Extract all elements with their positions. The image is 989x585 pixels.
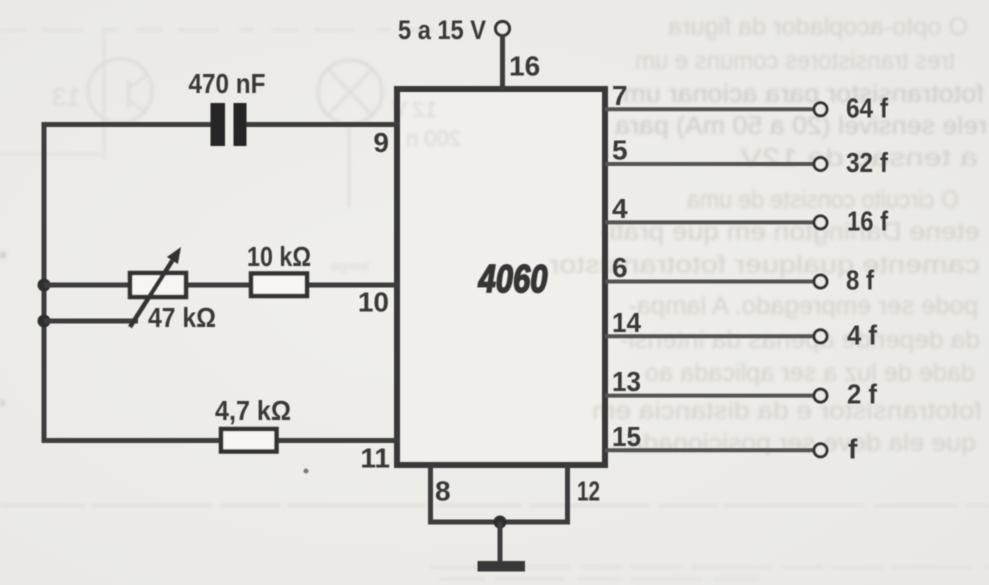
svg-text:6: 6 bbox=[612, 252, 628, 283]
svg-text:5: 5 bbox=[612, 135, 628, 166]
svg-text:tempo: tempo bbox=[330, 258, 369, 274]
svg-text:f: f bbox=[848, 433, 858, 464]
svg-text:pode ser empregado. A lampa-: pode ser empregado. A lampa- bbox=[628, 292, 978, 320]
svg-text:8: 8 bbox=[435, 476, 451, 507]
svg-text:13: 13 bbox=[612, 366, 641, 397]
svg-text:8 f: 8 f bbox=[846, 265, 875, 296]
svg-text:10: 10 bbox=[358, 287, 389, 318]
svg-text:5 a 15 V: 5 a 15 V bbox=[398, 15, 486, 45]
svg-text:13: 13 bbox=[52, 82, 81, 112]
svg-text:12: 12 bbox=[577, 476, 600, 507]
svg-text:fototransistor para acionar um: fototransistor para acionar um bbox=[623, 80, 984, 108]
svg-text:32 f: 32 f bbox=[846, 147, 889, 178]
svg-text:2 f: 2 f bbox=[847, 379, 878, 410]
svg-text:7: 7 bbox=[612, 80, 628, 111]
svg-text:16 f: 16 f bbox=[847, 205, 889, 236]
svg-text:dade de luz a ser aplicada ao: dade de luz a ser aplicada ao bbox=[645, 359, 975, 387]
svg-text:14: 14 bbox=[612, 307, 641, 338]
svg-text:que ela deve ser posicionada.: que ela deve ser posicionada. bbox=[621, 429, 976, 457]
svg-text:470 nF: 470 nF bbox=[189, 68, 266, 99]
svg-text:4 f: 4 f bbox=[847, 319, 878, 350]
svg-text:O opto-acoplador da figura: O opto-acoplador da figura bbox=[668, 13, 968, 41]
svg-text:9: 9 bbox=[373, 127, 389, 158]
svg-text:47 kΩ: 47 kΩ bbox=[148, 302, 216, 333]
svg-text:da depende apenas da intensi-: da depende apenas da intensi- bbox=[620, 326, 980, 354]
svg-text:fototransistor e da distancia: fototransistor e da distancia em bbox=[592, 397, 982, 425]
svg-text:O circuito consiste de uma: O circuito consiste de uma bbox=[687, 186, 959, 214]
svg-text:15: 15 bbox=[612, 421, 641, 452]
svg-text:16: 16 bbox=[509, 51, 540, 82]
svg-text:rele sensivel (20 a 50 mA) par: rele sensivel (20 a 50 mA) para bbox=[615, 112, 987, 140]
svg-text:200 n: 200 n bbox=[406, 126, 461, 151]
svg-text:64 f: 64 f bbox=[846, 92, 889, 123]
svg-text:4: 4 bbox=[612, 193, 628, 224]
svg-text:tres transistores comuns e um: tres transistores comuns e um bbox=[635, 47, 955, 75]
svg-text:4,7 kΩ: 4,7 kΩ bbox=[215, 395, 291, 426]
svg-text:11: 11 bbox=[360, 443, 390, 474]
svg-text:4060: 4060 bbox=[478, 258, 548, 301]
svg-text:10 kΩ: 10 kΩ bbox=[247, 241, 311, 272]
